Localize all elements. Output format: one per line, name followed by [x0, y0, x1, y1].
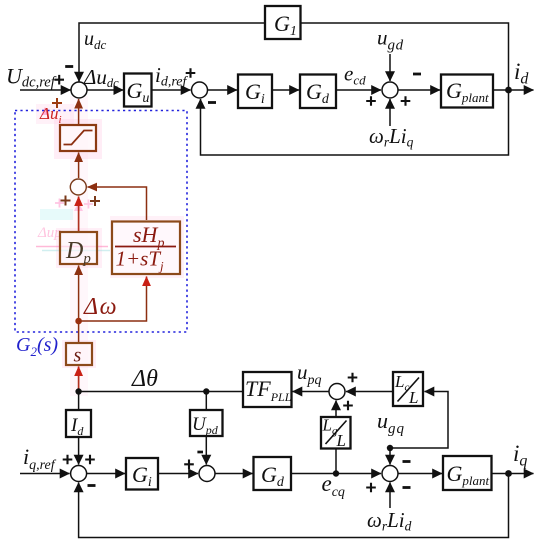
summing junction sum6	[382, 466, 398, 482]
wire: U_pd down into sum8	[205, 436, 207, 465]
wire: delta-theta line from TF_PLL to left	[79, 391, 243, 393]
sign + right below sum4	[90, 196, 100, 206]
svg-text:1+sTj: 1+sTj	[116, 247, 165, 274]
summing junction sum7	[71, 466, 87, 482]
svg-text:ugq: ugq	[377, 408, 405, 437]
wire: I_d down into sum7	[78, 437, 80, 465]
wire: saturation to sum1 (red, up)	[78, 99, 80, 125]
block Gd (bottom)	[254, 457, 292, 490]
summing junction sum3	[382, 82, 398, 98]
sign - right of sum6	[403, 486, 411, 489]
block Gplant (bottom)	[443, 456, 492, 490]
node delta-theta left	[75, 388, 81, 394]
svg-text:Δuр: Δuр	[37, 225, 62, 241]
svg-text:ecq: ecq	[322, 471, 345, 500]
sign - of sum2 feedback	[208, 101, 216, 104]
svg-text:L: L	[336, 431, 346, 450]
wire: i_d feedback to sum2	[201, 90, 509, 155]
block Gplant (top)	[441, 75, 493, 108]
block s	[66, 343, 92, 365]
wire: sum4 to saturation (red, up)	[78, 153, 80, 179]
wire: Gplant to output i_q	[492, 473, 534, 475]
block Dp	[60, 232, 97, 264]
wire: Gd to sum3	[336, 89, 381, 91]
svg-text:ωrLiq: ωrLiq	[369, 124, 414, 150]
wire: u_gq down into sum6	[389, 448, 391, 465]
wire: node to Dp (red, up)	[78, 266, 80, 322]
summing junction sum4 (red)	[70, 179, 86, 195]
svg-text:G2(s): G2(s)	[16, 334, 58, 359]
wire: sum3 to Gplant	[398, 89, 440, 91]
summing junction sum5	[329, 384, 345, 400]
block Gi (top)	[238, 75, 272, 109]
svg-text:id: id	[514, 59, 529, 88]
wire: omega_r L i_q up into sum3	[389, 99, 391, 126]
svg-text:Δω: Δω	[83, 294, 118, 320]
sign - of U_pd	[197, 451, 203, 454]
svg-text:udc: udc	[84, 28, 107, 52]
wire: u_gd down into sum3	[389, 54, 391, 81]
sign + of sum8 input	[184, 460, 194, 470]
wire: node to sHp block (red, right and up)	[79, 277, 147, 322]
sign + left of sum3	[366, 96, 376, 106]
sign + of U_dc,ref	[54, 75, 64, 85]
sign + top right of sum5	[348, 373, 358, 383]
sign - of u_dc	[65, 65, 73, 68]
wire: delta-theta down into I_d	[78, 392, 80, 411]
sign + of I_d branch	[85, 455, 95, 465]
wire: Gu to sum2	[152, 89, 191, 91]
wire: Gd to sum6	[291, 473, 381, 475]
svg-text:id,ref: id,ref	[155, 63, 188, 90]
wire: Gi to Gd	[272, 89, 299, 91]
node red junction	[75, 318, 82, 325]
svg-text:ecd: ecd	[344, 62, 366, 88]
sign - of u_gq	[403, 460, 411, 463]
wire: Gi to sum8	[158, 473, 198, 475]
block Lg/L	[321, 417, 351, 449]
wire: sum8 to Gd bottom	[215, 473, 253, 475]
block Lc/L	[393, 372, 423, 406]
wire: sum7 to Gi bottom	[86, 473, 125, 475]
sign + bottom right of sum5	[343, 401, 353, 411]
svg-text:iq: iq	[513, 441, 527, 470]
svg-text:iq,ref: iq,ref	[23, 444, 57, 473]
svg-text:Δui: Δui	[39, 104, 62, 126]
node u_gq	[387, 445, 393, 451]
wire: u_gq node to Lc/L input	[390, 392, 448, 449]
svg-text:s: s	[74, 345, 82, 367]
sign - of u_gd	[413, 73, 421, 76]
wire: U_dc,ref input	[20, 89, 71, 91]
svg-text:ugd: ugd	[377, 26, 404, 54]
node e_cq	[333, 470, 339, 476]
node i_q	[505, 470, 512, 477]
block Gi (bottom)	[126, 458, 158, 490]
wire: sum5 to TF_PLL	[293, 391, 330, 393]
block G1	[265, 6, 301, 39]
wire: Gplant to output i_d	[493, 89, 534, 91]
svg-text:L: L	[408, 388, 418, 407]
block TF_PLL	[243, 372, 292, 407]
wire: e_cq node up to Lg/L	[335, 449, 337, 474]
summing junction sum1	[71, 82, 87, 98]
wire: Lc/L to sum5	[346, 391, 393, 393]
sign - of sum7 feedback	[88, 484, 96, 487]
node delta-theta at U_pd tap	[203, 388, 209, 394]
wire: sHp to sum4 (red, up then left)	[88, 187, 147, 220]
sign + of i_d,ref	[186, 68, 196, 78]
sign + left below sum4	[61, 196, 71, 206]
svg-text:Udc,ref: Udc,ref	[6, 64, 57, 91]
wire: G1 feedback top run from right vertical to left drop	[79, 23, 509, 91]
block Gd (top)	[300, 75, 336, 109]
wire: i_q,ref input	[20, 473, 70, 475]
block Gu	[124, 74, 152, 107]
dotted box G2(s)	[15, 111, 187, 333]
wire: s block up to node (red)	[78, 323, 80, 343]
summing junction sum8	[199, 466, 215, 482]
wire: delta-theta down into U_pd	[205, 392, 207, 411]
svg-text:Δudc: Δudc	[83, 65, 119, 90]
block I_d	[66, 410, 91, 437]
wire: delta-theta up into s block (red)	[78, 367, 80, 392]
wire: sum6 to Gplant bottom	[398, 473, 442, 475]
svg-text:ωrLid: ωrLid	[367, 508, 412, 534]
block U_pd	[190, 410, 223, 436]
saturation block	[60, 125, 96, 151]
wire: i_q feedback to sum7	[79, 474, 509, 538]
wire: omega_r L i_d up into sum6	[389, 483, 391, 509]
sign + of i_q,ref	[63, 455, 73, 465]
wire: sum2 to Gi	[207, 89, 237, 91]
block sHp/(1+sTj)	[112, 222, 180, 275]
svg-text:Δθ: Δθ	[131, 366, 158, 392]
wire: Lg/L up into sum5	[335, 401, 337, 418]
wire: Dp to sum4 (red, up)	[78, 197, 80, 232]
wire: sum1 to Gu	[87, 89, 123, 91]
sign + left of sum6	[366, 483, 376, 493]
node i_d	[505, 87, 512, 94]
sign + right of sum3	[401, 96, 411, 106]
svg-text:upq: upq	[297, 360, 322, 388]
sign + red below sum1	[52, 98, 62, 108]
summing junction sum2	[192, 82, 208, 98]
